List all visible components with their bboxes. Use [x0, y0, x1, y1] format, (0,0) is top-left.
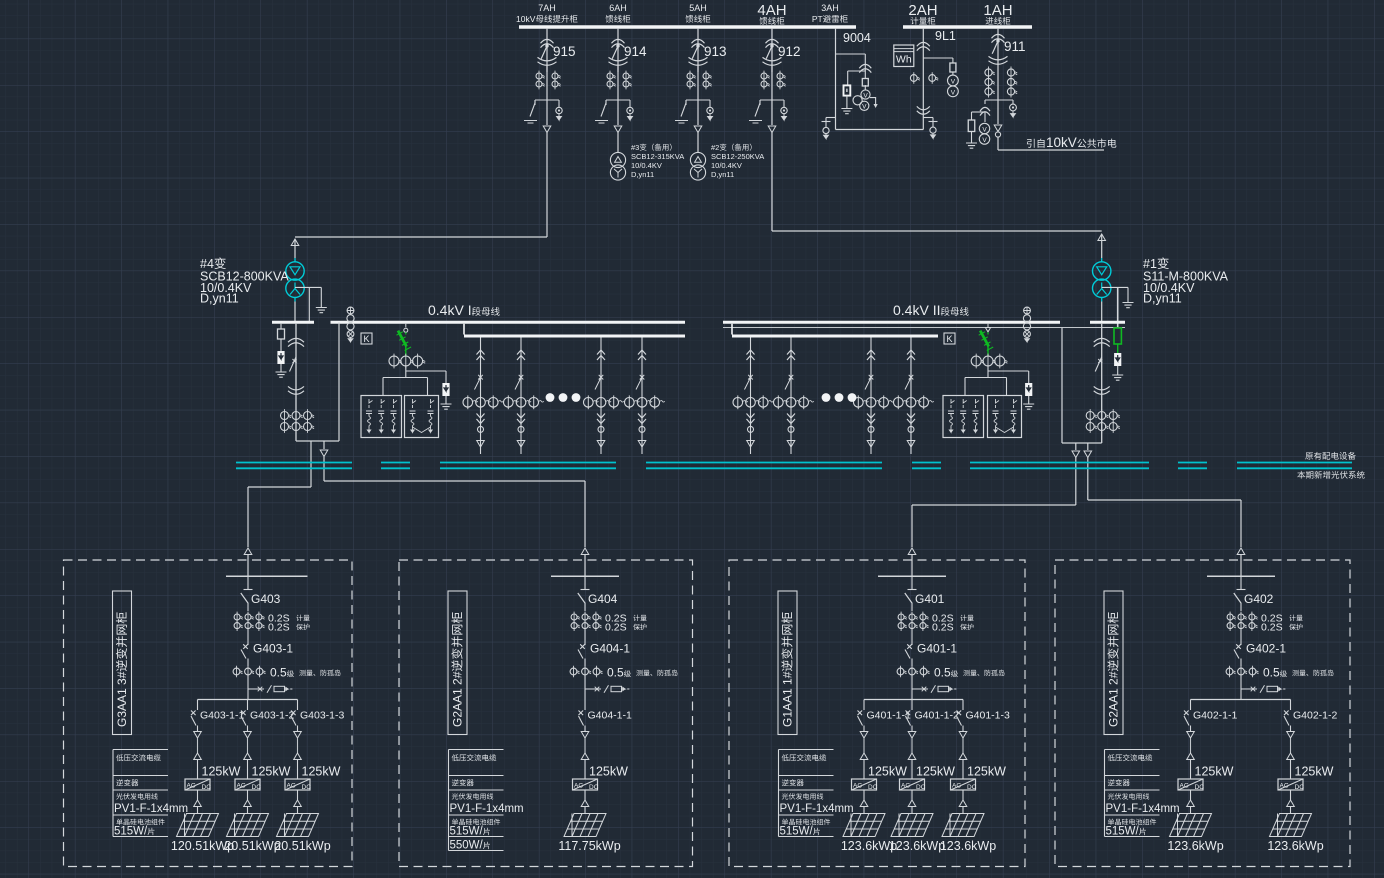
wire branch G401-1-3 [962, 700, 964, 711]
CT measuring row G403-1 0.5 [233, 668, 240, 675]
wire branch G401-1-2 [911, 700, 913, 711]
isolating contact down [517, 414, 525, 424]
feeder breaker [515, 375, 523, 390]
AC cable [1290, 738, 1292, 753]
svg-text:9004: 9004 [843, 31, 871, 45]
svg-text:Wh: Wh [896, 54, 912, 66]
arrow down 1AH [1011, 111, 1016, 117]
contactor K bus II [944, 333, 955, 344]
CT row bus II [971, 356, 981, 366]
CT metering cluster G403 0.2S [234, 614, 240, 620]
cable head G401-1-1 up [860, 753, 868, 760]
cable head G402 feed [1237, 548, 1245, 555]
wire branch right [709, 100, 711, 107]
cable head [638, 441, 646, 448]
cable head G401-1-1 down [860, 732, 868, 739]
cable head G404-1-1 down [581, 732, 589, 739]
wire [247, 629, 249, 645]
svg-text:125kW: 125kW [868, 765, 907, 779]
inverter AC/DC G401-1-3 [951, 779, 976, 790]
wire [247, 659, 249, 667]
wire split [405, 371, 407, 378]
capacitor branch [976, 399, 980, 408]
wire [772, 230, 1102, 232]
svg-text:AC: AC [901, 782, 910, 789]
CT cluster 914 [607, 73, 613, 79]
spec table G404 [449, 749, 504, 751]
cable head G401-1-3 up [959, 753, 967, 760]
svg-text:SCB12-315KVA: SCB12-315KVA [631, 152, 684, 161]
wire rect right #4 [338, 328, 340, 442]
wire [546, 100, 548, 125]
wire feeder 912 drop [771, 28, 773, 72]
svg-text:3AH: 3AH [821, 3, 839, 13]
busbar 0.4kV II main [723, 321, 1060, 324]
label existing equipment [1305, 452, 1355, 460]
svg-text:117.75kWp: 117.75kWp [558, 839, 620, 853]
svg-text:915: 915 [553, 44, 576, 59]
wire [771, 100, 773, 125]
inverter AC/DC G403-1-1 [185, 779, 210, 790]
cable head [787, 441, 795, 448]
svg-text:10/0.4KV: 10/0.4KV [631, 161, 662, 170]
svg-text:G1AA1 1#: G1AA1 1# [781, 671, 795, 727]
cable head [747, 441, 755, 448]
capacitor branch [996, 399, 1000, 408]
wire [197, 726, 199, 732]
indicator 914 [627, 107, 633, 113]
wire feeder 913 drop [697, 28, 699, 72]
svg-text:911: 911 [1004, 39, 1026, 54]
svg-text:G401-1-2: G401-1-2 [915, 710, 960, 722]
wire [297, 760, 299, 780]
wire [848, 70, 866, 72]
wire [697, 100, 699, 125]
wire load feeder [641, 338, 643, 455]
svg-text:913: 913 [704, 44, 727, 59]
wire [836, 53, 866, 55]
CT measuring row G402-1 0.5 [1226, 668, 1233, 675]
transformer #4 SCB12-800KVA [286, 262, 304, 280]
busbar 0.4kV I stub [272, 321, 314, 324]
capacitor branch [951, 399, 955, 408]
CT stack 1AH right [1007, 69, 1014, 76]
transformer #1 S11-M-800KVA [1093, 262, 1111, 280]
isolating contact upper 912 [766, 39, 779, 47]
breaker 915 [545, 44, 548, 47]
fuse 3AH PT [862, 79, 868, 87]
busbar connector [463, 324, 465, 335]
DC cable [247, 790, 249, 800]
cable head [867, 441, 875, 448]
cable head G404-1-1 up [581, 753, 589, 760]
wire [584, 629, 586, 645]
breaker 914 [616, 44, 619, 47]
indicator 913 [707, 107, 713, 113]
breaker 911 [996, 39, 999, 42]
wire [863, 760, 865, 780]
wire [962, 807, 964, 814]
breaker G403 [241, 593, 249, 604]
breaker 912 [770, 44, 773, 47]
PV array G403-1-1 [177, 814, 219, 837]
CT row bus I [389, 356, 399, 366]
wire branch G402-1-1 [1190, 700, 1192, 711]
voltage transformer stack bus II [1024, 307, 1031, 314]
wire [987, 365, 989, 371]
wire neutral #4 [295, 286, 321, 288]
fuse 3AH left [844, 85, 851, 95]
indicator 912 [781, 107, 787, 113]
DC cable [197, 790, 199, 800]
breaker 913 [696, 44, 699, 47]
svg-text:G404: G404 [588, 592, 618, 606]
svg-text:914: 914 [624, 44, 647, 59]
drawout contact upper #1 [1094, 338, 1110, 346]
CT stack 1AH left [985, 69, 992, 76]
wire [197, 807, 199, 814]
svg-text:6AH: 6AH [609, 3, 627, 13]
spec table G403 [113, 749, 168, 751]
svg-text:DC: DC [916, 784, 926, 791]
wire [771, 66, 773, 100]
svg-text:G402-1-1: G402-1-1 [1193, 710, 1238, 722]
svg-text:G403-1-1: G403-1-1 [200, 710, 245, 722]
svg-text:125kW: 125kW [202, 765, 241, 779]
surge arrester (green) bus II [987, 324, 989, 328]
ellipsis dots bus II [822, 393, 831, 402]
wire [846, 96, 848, 104]
wire [997, 70, 999, 100]
wire tap to G401 box [1075, 443, 1077, 450]
ground 3AH left [841, 104, 852, 114]
disconnect contact 3AH [859, 64, 871, 72]
wire [911, 659, 913, 667]
CT cluster 915 [536, 73, 542, 79]
svg-text:0.4kV I: 0.4kV I [428, 302, 472, 318]
wire [584, 576, 586, 589]
wire tap to G404 box [323, 441, 325, 449]
wire city supply [998, 149, 1104, 151]
cable head [597, 441, 605, 448]
arrow 3AH [870, 98, 876, 104]
voltmeter 2AH upper [948, 75, 959, 86]
dashed enclosure G404 PV cabinet [399, 560, 693, 867]
isolating contact upper 913 [692, 39, 705, 47]
AC cable [962, 738, 964, 753]
junction tee 914 [606, 99, 630, 101]
DC cable [297, 790, 299, 800]
isolating contact up [867, 350, 875, 360]
svg-text:DC: DC [302, 784, 312, 791]
wire [972, 111, 986, 113]
svg-text:V: V [951, 89, 956, 96]
svg-text:DC: DC [202, 784, 212, 791]
ellipsis dots bus I [546, 393, 555, 402]
wire load feeder [520, 338, 522, 455]
wire [697, 66, 699, 100]
voltmeter 1AH upper [979, 123, 989, 133]
wire branch left [685, 100, 687, 105]
wire branch left [534, 100, 536, 105]
capacitor branch [1014, 399, 1018, 408]
node [639, 426, 645, 432]
wire 915 to #4 transformer [546, 132, 548, 237]
wire tap to G402 box [1087, 443, 1089, 450]
cable head G403-1-2 up [244, 753, 252, 760]
wire [546, 66, 548, 100]
wire cyan tail lower [1101, 298, 1103, 302]
svg-text:0.5: 0.5 [607, 666, 624, 680]
cable head [294, 800, 302, 807]
contact 911 lower [989, 56, 1008, 64]
svg-text:125kW: 125kW [1295, 765, 1334, 779]
capacitor branch [394, 399, 398, 408]
ground [1023, 399, 1034, 409]
DC cable [1190, 790, 1192, 800]
dashed enclosure G403 PV cabinet [64, 560, 353, 867]
cable head G401 feed [908, 548, 916, 555]
DC cable [911, 790, 913, 800]
CT row feeder [584, 398, 594, 408]
surge arrester (green) bus I [405, 324, 407, 328]
wire [584, 604, 586, 612]
svg-text:4AH: 4AH [757, 2, 786, 19]
isolating contact down [638, 414, 646, 424]
wire branch left [984, 100, 986, 104]
svg-text:K: K [947, 334, 953, 344]
PV array G403-1-3 [277, 814, 319, 837]
wire split [987, 371, 989, 378]
capacitor bank box II-1 [943, 396, 984, 438]
wire [584, 760, 586, 780]
cable head G401-1-2 up [908, 753, 916, 760]
wire [962, 726, 964, 732]
isolating contact up [787, 350, 795, 360]
CT row feeder [504, 398, 514, 408]
LV breaker #1 [1095, 357, 1102, 372]
wire branch right [558, 100, 560, 107]
arrow down 913 [708, 114, 713, 120]
spec table G402 [1105, 749, 1160, 751]
svg-text:125kW: 125kW [252, 765, 291, 779]
svg-text:G401-1-3: G401-1-3 [966, 710, 1011, 722]
node [518, 426, 524, 432]
busbar 0.4kV II stub [1090, 321, 1125, 324]
wire [911, 604, 913, 612]
svg-text:AC: AC [853, 782, 862, 789]
svg-text:0.2S: 0.2S [268, 622, 290, 634]
AC cable [863, 738, 865, 753]
feeder breaker [595, 375, 603, 390]
CT row feeder [894, 398, 904, 408]
switch G403-1-1 [191, 711, 196, 726]
CT 2AH b [929, 75, 936, 82]
cable head G403-1-2 down [244, 732, 252, 739]
cable head to #4 transformer [291, 239, 299, 246]
CT row feeder [625, 398, 635, 408]
wire load feeder [750, 338, 752, 455]
CT metering cluster G401 0.2S [898, 614, 904, 620]
isolating contact lower 912 [763, 57, 782, 65]
isolating contact down [867, 414, 875, 424]
svg-text:G402-1: G402-1 [1246, 642, 1286, 656]
svg-text:0.2S: 0.2S [1261, 622, 1283, 634]
ground [1112, 370, 1123, 380]
wire [297, 726, 299, 732]
svg-text:G2AA1 2#: G2AA1 2# [1107, 671, 1121, 727]
drawout contact lower #4 [288, 386, 304, 394]
cable head 914 [614, 126, 622, 133]
svg-text:0.2S: 0.2S [932, 622, 954, 634]
svg-text:0.4kV II: 0.4kV II [893, 302, 940, 318]
busbar 10kV section B [903, 25, 1032, 28]
cable head G403-1-1 down [194, 732, 202, 739]
svg-text:G403-1-3: G403-1-3 [300, 710, 345, 722]
svg-text:G404-1: G404-1 [590, 642, 630, 656]
isolating contact down [477, 414, 485, 424]
wire cyan tail lower [294, 298, 296, 302]
switch G403-1-2 [241, 711, 246, 726]
CT 2AH a [910, 75, 917, 82]
wire rect bottom #1 [1062, 442, 1102, 444]
cabinet name box G3AA1 3#逆变并网柜 [113, 591, 132, 735]
cable head G402-1-1 down [1187, 732, 1195, 739]
capacitor branch [381, 399, 385, 408]
feeder breaker [745, 375, 753, 390]
AC cable [297, 738, 299, 753]
wire [1240, 659, 1242, 667]
switch G404-1 [578, 644, 585, 658]
wire tap 2AH [923, 117, 933, 119]
PV array G401-1-3 [942, 814, 984, 837]
feeder breaker [475, 375, 483, 390]
wire [1240, 675, 1242, 700]
voltmeter 2AH lower [948, 86, 959, 97]
cable head [860, 800, 868, 807]
wire branch right [1012, 100, 1014, 104]
ground #4 neutral [316, 303, 327, 313]
fuse (green) #1 [1114, 328, 1121, 344]
CT cluster LV #4 [281, 412, 289, 420]
svg-text:10kV: 10kV [516, 14, 536, 24]
cable head G403-1-3 up [294, 753, 302, 760]
svg-text:PV1-F-1x4mm: PV1-F-1x4mm [114, 803, 188, 815]
cabinet name box G1AA1 1#逆变并网柜 [778, 591, 797, 735]
voltage transformer 3AH V-meter group [861, 90, 870, 99]
AC cable [911, 738, 913, 753]
busbar 0.4kV II lower [732, 335, 938, 338]
contact 9L1 lower [917, 106, 930, 114]
cable head G403-1-1 up [194, 753, 202, 760]
wire branch left [759, 100, 761, 105]
fuse isolation row [912, 685, 936, 693]
wire cyan tail upper [1101, 258, 1103, 262]
spec table G401 [779, 749, 834, 751]
node [478, 426, 484, 432]
busbar 10kV section A [519, 25, 856, 28]
svg-text:DC: DC [1195, 784, 1205, 791]
wire load feeder [870, 338, 872, 455]
contact 9L1 upper [917, 42, 930, 50]
PV array G401-1-1 [843, 814, 885, 837]
inverter AC/DC G403-1-3 [285, 779, 310, 790]
CT measuring row G401-1 0.5 [897, 668, 904, 675]
svg-text:5AH: 5AH [689, 3, 707, 13]
bus G401 [878, 575, 946, 577]
tick [908, 589, 917, 591]
cable head 1AH [994, 125, 1002, 132]
wire rect bottom #4 [296, 440, 339, 442]
isolating contact down [747, 414, 755, 424]
wire [295, 236, 547, 238]
svg-text:10kV: 10kV [1046, 135, 1077, 150]
wire [247, 807, 249, 814]
isolating contact up [477, 350, 485, 360]
cable head [581, 800, 589, 807]
fuse 1AH left [968, 120, 975, 132]
dashed enclosure G401 PV cabinet [729, 560, 1025, 867]
inverter AC/DC G403-1-2 [235, 779, 260, 790]
CT cluster 913 [687, 73, 693, 79]
capacitor branch [431, 399, 435, 408]
svg-text:SCB12-250KVA: SCB12-250KVA [711, 152, 764, 161]
switch G401-1 [905, 644, 912, 658]
svg-text:PV1-F-1x4mm: PV1-F-1x4mm [450, 803, 524, 815]
wire load feeder [910, 338, 912, 455]
wire cyan tail upper [294, 258, 296, 262]
svg-text:G404-1-1: G404-1-1 [588, 710, 633, 722]
wire neutral #1 [1102, 286, 1128, 288]
wire branch G403-1-3 [297, 700, 299, 711]
cable head [1187, 800, 1195, 807]
busbar 0.4kV I main [331, 321, 686, 324]
node [788, 426, 794, 432]
svg-text:10/0.4KV: 10/0.4KV [711, 161, 742, 170]
drawout contact upper #4 [288, 338, 304, 346]
DC cable [1290, 790, 1292, 800]
wire [923, 57, 953, 59]
isolating contact down [907, 414, 915, 424]
svg-text:PT: PT [812, 14, 823, 24]
CT metering cluster G402 0.2S [1227, 614, 1233, 620]
wire [864, 54, 866, 78]
AC cable [1190, 738, 1192, 753]
cable head G404 feed [581, 548, 589, 555]
indicator 3AH tap [823, 127, 829, 133]
wire [584, 675, 586, 700]
cable head G401-1-2 down [908, 732, 916, 739]
wire [952, 72, 954, 75]
isolating contact upper 915 [541, 39, 554, 47]
backup transformer #3 HV winding [610, 152, 625, 167]
switch G402-1-1 [1184, 711, 1189, 726]
svg-text:550W/: 550W/ [450, 840, 484, 852]
CT cluster 912 [761, 73, 767, 79]
wire [584, 659, 586, 667]
svg-text:G2AA1 2#: G2AA1 2# [451, 671, 465, 727]
svg-text:0.5: 0.5 [934, 666, 951, 680]
wire [247, 760, 249, 780]
svg-text:AC: AC [187, 782, 196, 789]
CT row feeder [774, 398, 784, 408]
wire [911, 726, 913, 732]
junction tee 912 [760, 99, 784, 101]
drawout contact lower #1 [1094, 386, 1110, 394]
wire tap to G403 box [310, 441, 312, 487]
earthing switch 912 [749, 100, 762, 123]
boundary line existing equipment (teal) [236, 462, 352, 464]
